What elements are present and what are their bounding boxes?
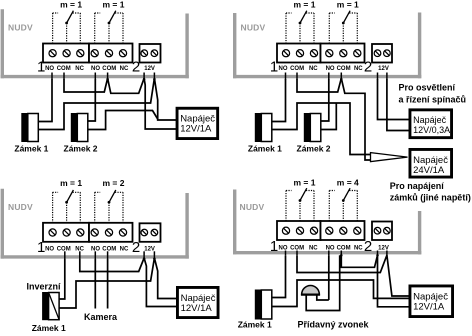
svg-text:NO: NO bbox=[279, 245, 288, 251]
svg-text:m = 1: m = 1 bbox=[294, 178, 316, 188]
svg-text:zámků (jiné napětí): zámků (jiné napětí) bbox=[390, 193, 471, 203]
svg-text:COM: COM bbox=[102, 246, 116, 252]
svg-text:Pro osvětlení: Pro osvětlení bbox=[399, 83, 456, 93]
svg-text:NO: NO bbox=[45, 246, 54, 252]
svg-text:m = 2: m = 2 bbox=[103, 178, 125, 188]
svg-text:Zámek 1: Zámek 1 bbox=[238, 320, 272, 330]
svg-text:COM: COM bbox=[57, 66, 71, 72]
svg-text:COM: COM bbox=[102, 66, 116, 72]
svg-text:Kamera: Kamera bbox=[84, 312, 118, 322]
svg-text:12V/1A: 12V/1A bbox=[181, 303, 213, 314]
svg-text:COM: COM bbox=[57, 246, 71, 252]
svg-text:m = 1: m = 1 bbox=[294, 0, 316, 10]
svg-text:12V: 12V bbox=[378, 66, 389, 72]
svg-text:m = 1: m = 1 bbox=[103, 0, 125, 10]
svg-text:m = 1: m = 1 bbox=[60, 178, 82, 188]
svg-text:2: 2 bbox=[132, 59, 140, 76]
svg-text:NO: NO bbox=[279, 66, 288, 72]
svg-text:Zámek 2: Zámek 2 bbox=[297, 144, 331, 154]
svg-text:NC: NC bbox=[75, 66, 84, 72]
svg-text:1: 1 bbox=[270, 59, 278, 76]
svg-text:Zámek 1: Zámek 1 bbox=[14, 144, 48, 154]
svg-text:NO: NO bbox=[91, 66, 100, 72]
svg-text:2: 2 bbox=[364, 59, 372, 76]
svg-text:NC: NC bbox=[120, 246, 129, 252]
svg-text:12V: 12V bbox=[144, 246, 155, 252]
svg-text:NC: NC bbox=[120, 66, 129, 72]
svg-text:COM: COM bbox=[290, 66, 304, 72]
svg-text:m = 4: m = 4 bbox=[337, 178, 359, 188]
svg-text:NO: NO bbox=[326, 66, 335, 72]
svg-text:12V/1A: 12V/1A bbox=[180, 124, 212, 135]
svg-text:Zámek 1: Zámek 1 bbox=[32, 323, 66, 331]
svg-text:m = 1: m = 1 bbox=[337, 0, 359, 10]
svg-text:Napáječ: Napáječ bbox=[413, 115, 447, 125]
svg-text:NUDV: NUDV bbox=[8, 23, 33, 33]
svg-text:12V/0,3A: 12V/0,3A bbox=[413, 125, 450, 135]
svg-text:Inverzní: Inverzní bbox=[27, 282, 62, 292]
svg-text:12V/1A: 12V/1A bbox=[413, 301, 445, 312]
svg-text:COM: COM bbox=[337, 245, 351, 251]
svg-text:2: 2 bbox=[132, 239, 140, 256]
svg-text:12V: 12V bbox=[144, 66, 155, 72]
svg-text:COM: COM bbox=[337, 66, 351, 72]
svg-text:NUDV: NUDV bbox=[240, 202, 265, 212]
svg-text:Zámek 1: Zámek 1 bbox=[248, 144, 282, 154]
svg-text:m = 1: m = 1 bbox=[60, 0, 82, 10]
svg-text:1: 1 bbox=[270, 238, 278, 255]
svg-text:NUDV: NUDV bbox=[241, 23, 266, 33]
svg-text:NC: NC bbox=[354, 245, 363, 251]
svg-text:NO: NO bbox=[326, 245, 335, 251]
svg-text:Pro napájení: Pro napájení bbox=[390, 181, 445, 191]
svg-text:24V/1A: 24V/1A bbox=[413, 165, 445, 176]
svg-text:Zámek 2: Zámek 2 bbox=[64, 144, 98, 154]
svg-text:a řízení spínačů: a řízení spínačů bbox=[399, 95, 467, 105]
svg-text:Přídavný zvonek: Přídavný zvonek bbox=[298, 320, 370, 330]
svg-text:NO: NO bbox=[45, 66, 54, 72]
svg-text:NC: NC bbox=[354, 66, 363, 72]
svg-text:2: 2 bbox=[364, 238, 372, 255]
svg-text:NUDV: NUDV bbox=[8, 202, 33, 212]
svg-text:NC: NC bbox=[309, 245, 318, 251]
svg-text:NC: NC bbox=[309, 66, 318, 72]
